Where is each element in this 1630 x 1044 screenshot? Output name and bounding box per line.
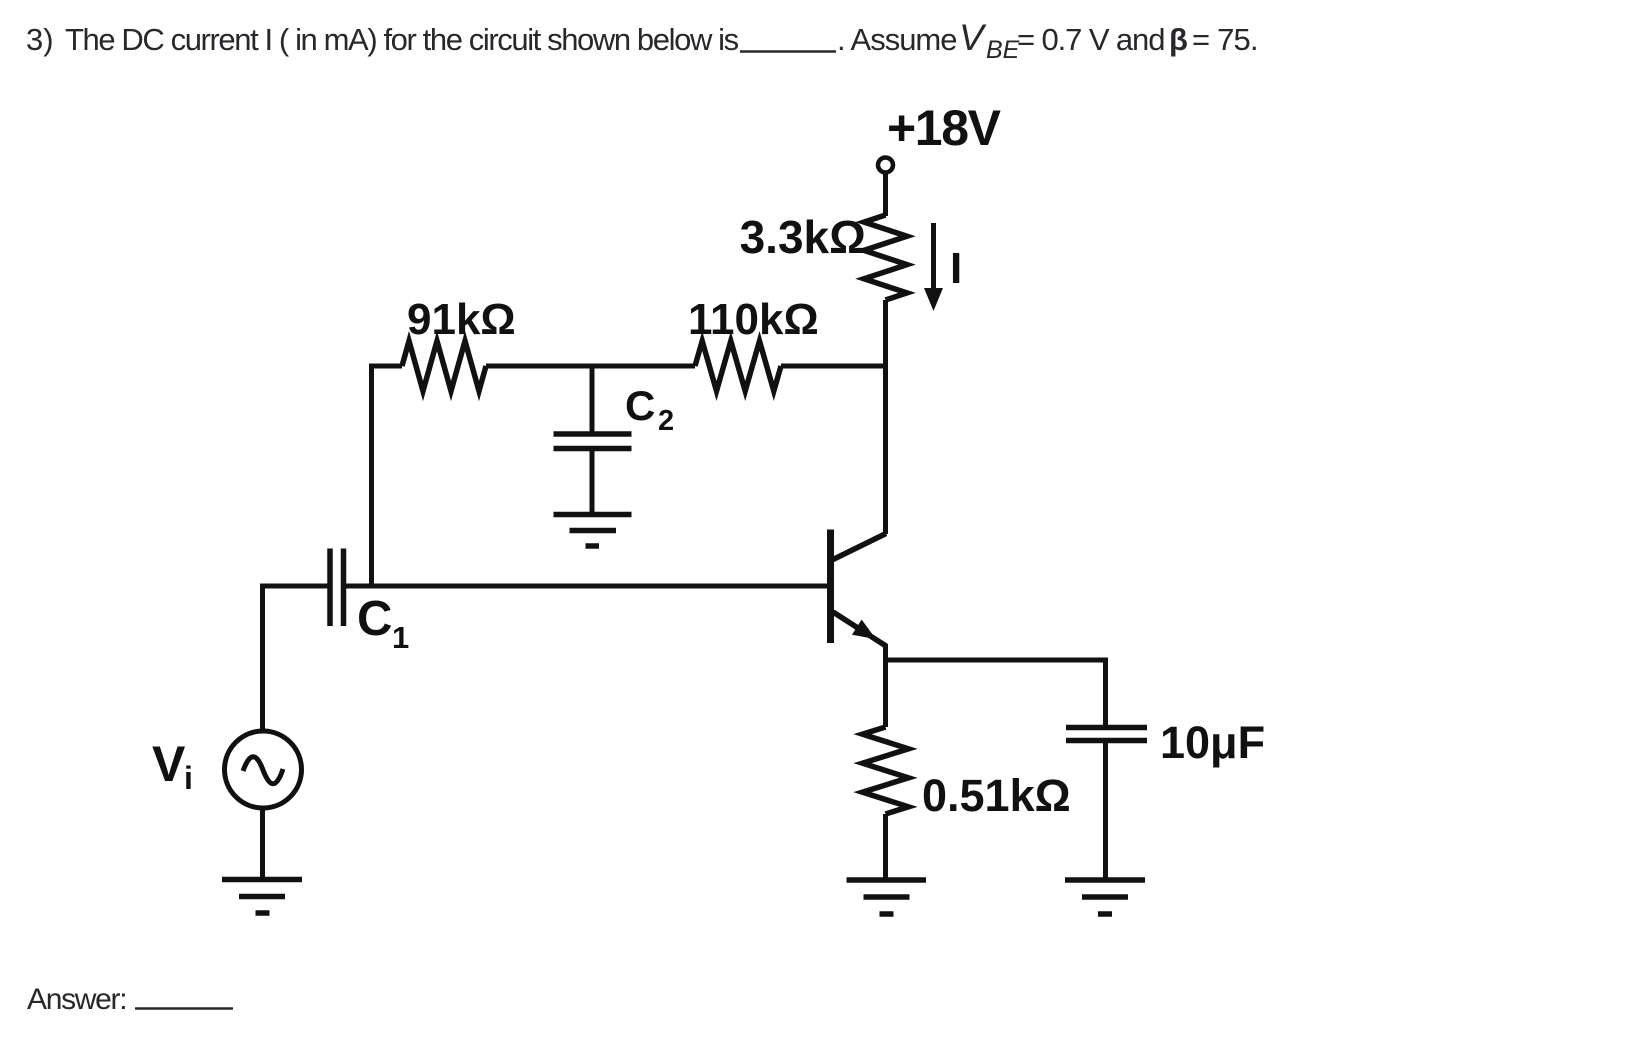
svg-text:. Assume: . Assume [837, 22, 957, 57]
svg-text:0.51kΩ: 0.51kΩ [922, 770, 1071, 821]
svg-text:BE: BE [986, 36, 1020, 64]
wire C2 to ground [590, 449, 595, 514]
svg-text:91kΩ: 91kΩ [407, 295, 516, 344]
svg-text:= 75.: = 75. [1192, 22, 1258, 57]
wire from +18V terminal to 3.3k resistor [883, 173, 888, 217]
resistor 110kΩ (horizontal zigzag) [695, 341, 781, 391]
resistor 91kΩ (horizontal zigzag) [402, 341, 486, 391]
transistor Q1 collector diagonal [833, 534, 886, 560]
svg-text:3.3kΩ: 3.3kΩ [740, 211, 866, 263]
svg-text:The DC current I ( in mA) for: The DC current I ( in mA) for the circui… [65, 22, 739, 57]
wire 10µF to ground [1103, 741, 1108, 880]
resistor 3.3kΩ (vertical zigzag) [864, 215, 907, 300]
wire base horizontal (C1 to transistor base) [344, 584, 828, 589]
capacitor C1 [330, 549, 344, 627]
answer line [27, 983, 233, 1016]
svg-text:V: V [152, 736, 186, 792]
svg-text:I: I [950, 244, 962, 293]
wire from Vi up to C1 [263, 586, 331, 731]
ground (below 10µF) [1065, 880, 1145, 914]
node +18V terminal circle [878, 158, 893, 173]
svg-text:C: C [357, 592, 392, 646]
svg-text:110kΩ: 110kΩ [688, 295, 819, 344]
resistor 0.51kΩ (vertical zigzag) [863, 727, 909, 814]
capacitor C2 [554, 434, 632, 449]
source Vi (sine source circle) [225, 731, 302, 808]
svg-text:Answer:: Answer: [27, 983, 126, 1016]
transistor Q1 base bar [827, 530, 834, 644]
svg-text:β: β [1169, 22, 1188, 57]
ground (below C2) [554, 515, 632, 547]
svg-text:= 0.7 V and: = 0.7 V and [1017, 22, 1164, 57]
wire collector vertical (3.3k bottom to transistor) [883, 300, 888, 534]
svg-text:V: V [959, 17, 987, 58]
wire Vi to ground [260, 808, 265, 879]
wire top rail y=366 from left corner to collector [372, 366, 886, 369]
current arrow I [924, 223, 943, 311]
wire 0.51k to ground [883, 814, 888, 879]
svg-text:i: i [184, 760, 193, 796]
svg-text:10μF: 10μF [1160, 717, 1265, 768]
ground (below Vi) [222, 880, 302, 914]
transistor Q1 emitter arrow [854, 621, 874, 638]
transistor Q1 emitter diagonal [833, 612, 886, 646]
question title text [26, 17, 1258, 64]
svg-text:1: 1 [392, 620, 409, 655]
svg-text:2: 2 [658, 405, 674, 437]
ground (below 0.51k) [847, 880, 927, 914]
wire left vertical from top rail down to base wire [369, 366, 374, 589]
svg-text:3): 3) [26, 22, 54, 57]
wire C2 stub down from top rail [590, 366, 595, 434]
capacitor 10µF [1066, 728, 1147, 741]
wire emitter vertical down to 0.51k [883, 644, 888, 727]
svg-text:+18V: +18V [887, 100, 1002, 156]
svg-text:C: C [625, 382, 655, 429]
wire emitter to bypass cap (horizontal + vertical) [886, 660, 1106, 727]
